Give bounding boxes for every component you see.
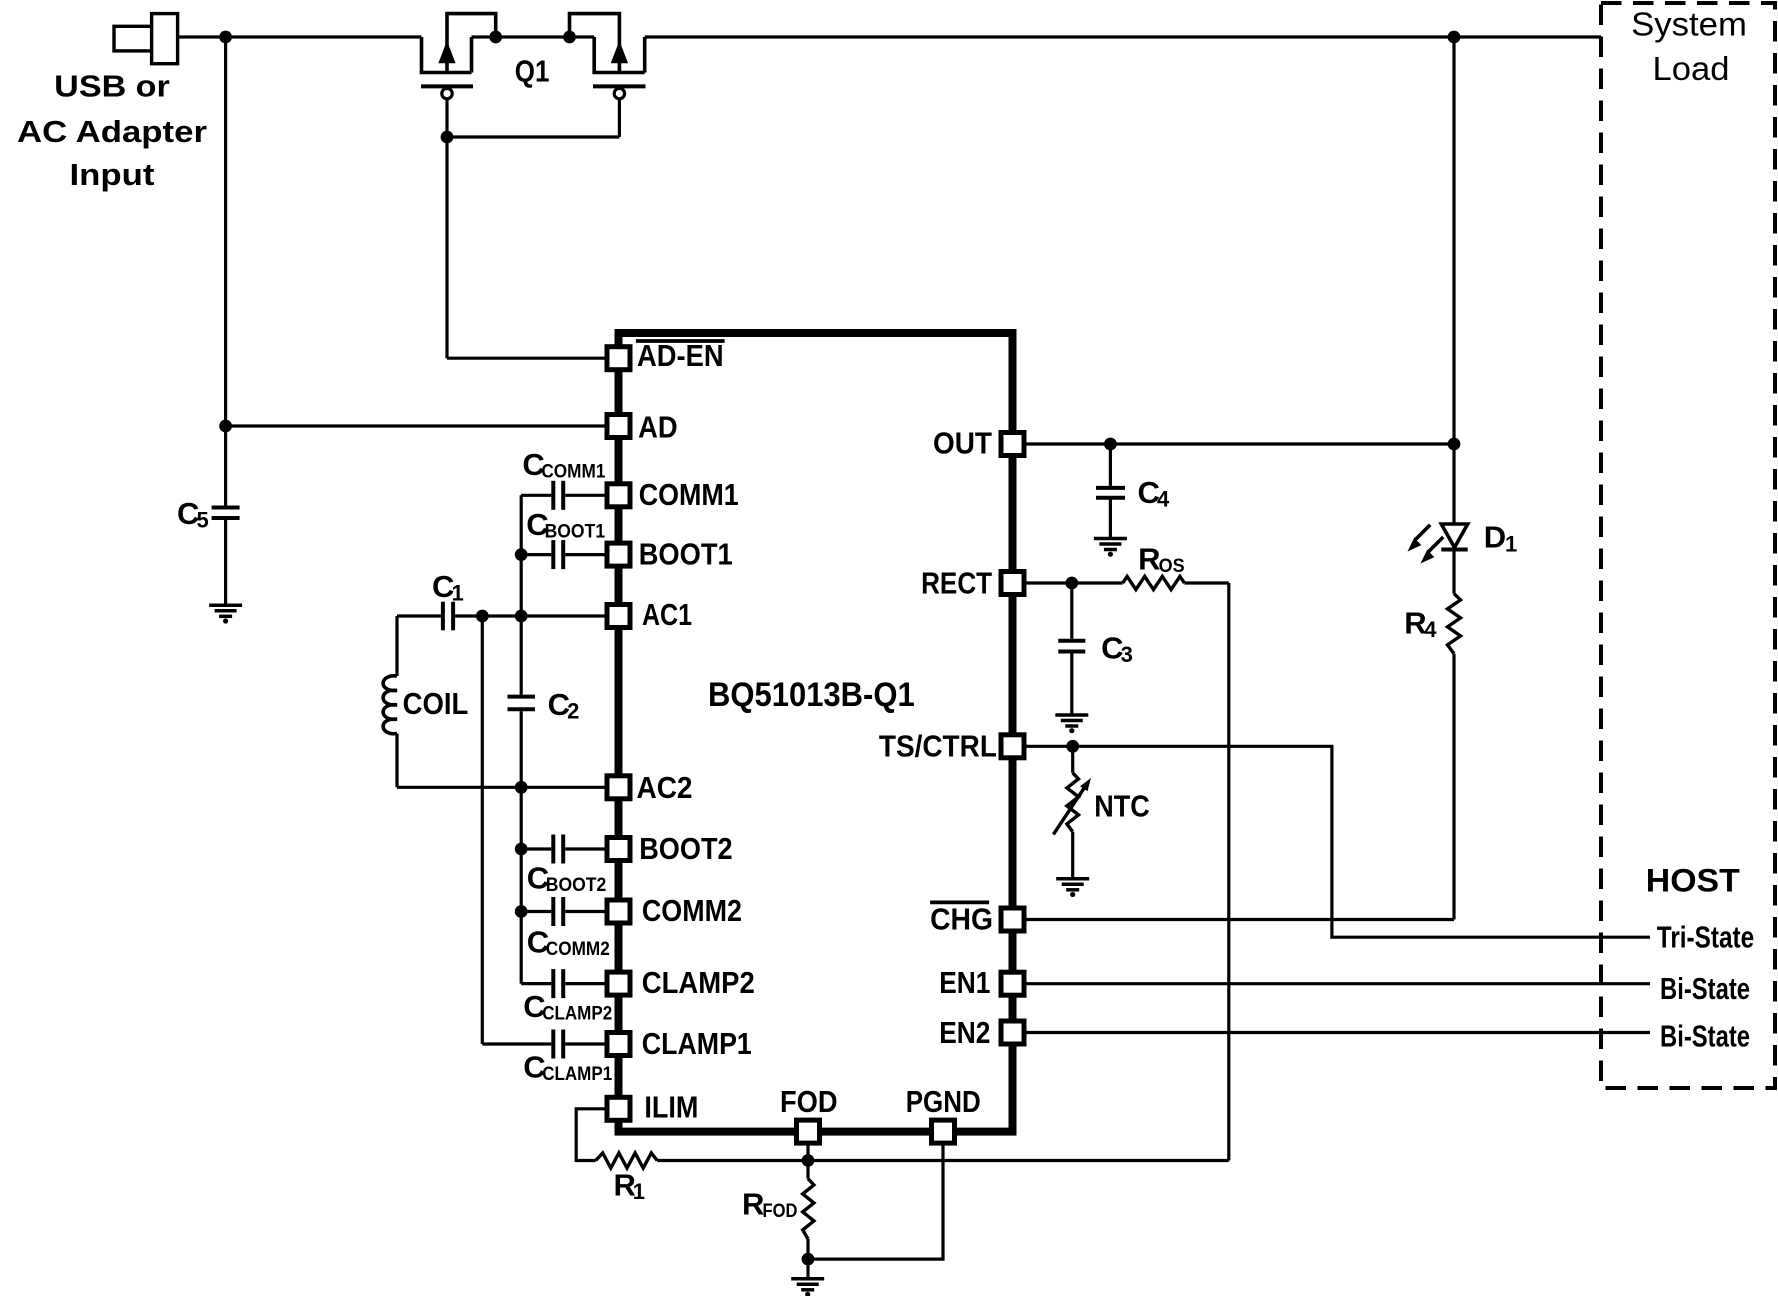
svg-text:FOD: FOD (780, 1085, 838, 1119)
resistor ROS (1123, 576, 1185, 589)
wire input drop to AD node (224, 37, 227, 506)
wire AC2 line (397, 786, 605, 789)
svg-text:AC Adapter: AC Adapter (17, 115, 207, 149)
wire R4 to CHG (1452, 654, 1455, 920)
svg-text:USB or: USB or (54, 70, 170, 104)
node RFOD-gnd (802, 1253, 815, 1266)
svg-text:AD: AD (638, 411, 678, 445)
wire FOD drop (806, 1145, 809, 1161)
node Q1 mid right (563, 31, 576, 44)
svg-text:COMM2: COMM2 (642, 894, 742, 928)
pin AD-EN (607, 347, 630, 370)
svg-text:Bi-State: Bi-State (1660, 1019, 1750, 1054)
svg-text:BOOT2: BOOT2 (639, 832, 732, 866)
svg-text:CHG: CHG (930, 903, 993, 937)
svg-text:PGND: PGND (906, 1085, 981, 1119)
wire top rail input segment (178, 35, 422, 38)
wire COMM1 cap line (521, 494, 551, 497)
wire BOOT2 cap line (521, 847, 551, 850)
label C3 (1101, 631, 1133, 668)
svg-text:System: System (1631, 6, 1747, 43)
svg-text:5: 5 (197, 508, 209, 533)
wire D1 to R4 (1452, 550, 1455, 594)
svg-text:1: 1 (1505, 532, 1517, 557)
svg-text:ILIM: ILIM (644, 1091, 698, 1125)
label USB or AC Adapter Input (17, 70, 207, 192)
wire R1 to FOD to ROS (657, 1159, 1229, 1162)
svg-text:R: R (742, 1187, 764, 1222)
ground under C3 (1055, 715, 1088, 733)
pin COMM2 (607, 900, 630, 923)
wire comm-clamp bus vertical (520, 495, 523, 694)
label CCLAMP1 (523, 1050, 612, 1086)
node C4 tap (1104, 438, 1117, 451)
svg-text:CLAMP2: CLAMP2 (642, 966, 755, 1000)
wire ILIM line (576, 1109, 604, 1161)
wire C3 drop (1070, 583, 1073, 639)
svg-text:COMM2: COMM2 (546, 939, 610, 960)
svg-text:NTC: NTC (1094, 789, 1150, 823)
pin BOOT1 (607, 543, 630, 566)
wire CLAMP1 cap line (482, 1042, 551, 1045)
capacitor C3 (1058, 641, 1085, 652)
box System Load / HOST dashed (1601, 3, 1775, 1088)
wire OUT to D1 vertical (1452, 37, 1455, 524)
svg-text:BOOT1: BOOT1 (639, 538, 733, 572)
capacitor CBOOT2 (553, 835, 563, 864)
capacitor CCLAMP2 (553, 969, 563, 998)
pin CLAMP1 (607, 1033, 630, 1056)
svg-text:BOOT2: BOOT2 (546, 875, 607, 896)
wire AC1 line (397, 614, 441, 617)
wire C4 to ground (1109, 498, 1112, 539)
label CBOOT2 (527, 861, 607, 897)
pin EN2 (1001, 1021, 1024, 1044)
svg-text:D: D (1484, 520, 1506, 555)
IC U1 BQ51013B-Q1 body (619, 333, 1013, 1132)
svg-text:AC2: AC2 (637, 771, 693, 805)
pin FOD (797, 1120, 820, 1143)
node AC1 left (476, 610, 489, 623)
wire AD line (226, 424, 605, 427)
pin CHG (1001, 908, 1024, 931)
label CBOOT1 (526, 507, 605, 543)
resistor R4 (1448, 594, 1461, 654)
wire EN1 line (1026, 982, 1650, 985)
capacitor CCOMM1 (553, 481, 563, 510)
ground under C4 (1094, 539, 1127, 557)
ground under NTC (1056, 879, 1089, 897)
svg-text:COMM1: COMM1 (541, 462, 605, 483)
node input (219, 31, 232, 44)
svg-text:Tri-State: Tri-State (1657, 920, 1754, 955)
node RECT-C3 (1065, 577, 1078, 590)
label D1 (1484, 520, 1518, 557)
capacitor C2 (508, 697, 536, 710)
label CCOMM2 (527, 925, 610, 961)
wire CLAMP2 cap line (521, 982, 551, 985)
wire EN2 line (1026, 1031, 1650, 1034)
overline AD-EN (636, 339, 725, 343)
label ROS (1138, 541, 1185, 577)
pin BOOT2 (607, 838, 630, 861)
node FOD-R1 (802, 1154, 815, 1167)
node AD (219, 420, 232, 433)
svg-text:Q1: Q1 (515, 55, 550, 89)
wire RECT line (1026, 581, 1123, 584)
resistor RFOD (803, 1161, 814, 1260)
label C1 (432, 569, 464, 606)
wire PGND return (808, 1145, 943, 1259)
wire BOOT1 cap line (521, 553, 551, 556)
LED D1 (1408, 524, 1468, 564)
pin EN1 (1001, 972, 1024, 995)
node Q1 mid left (489, 31, 502, 44)
svg-text:COIL: COIL (403, 687, 469, 721)
node BOOT1 bus (515, 548, 528, 561)
overline CHG (930, 901, 989, 905)
pin AC2 (607, 776, 630, 799)
node AC1 bus (515, 610, 528, 623)
label C2 (548, 687, 580, 724)
wire RFOD to ground (806, 1259, 809, 1279)
ground under RFOD (791, 1279, 824, 1296)
svg-text:BOOT1: BOOT1 (545, 522, 606, 543)
capacitor CCLAMP1 (553, 1030, 563, 1059)
node OUT-D1 (1448, 438, 1461, 451)
label CCOMM1 (522, 447, 605, 483)
svg-text:HOST: HOST (1646, 863, 1740, 899)
connector J1 USB/AC input (114, 14, 178, 64)
capacitor C4 (1096, 488, 1125, 498)
wire TS/CTRL line (1026, 746, 1650, 937)
pin RECT (1001, 572, 1024, 595)
svg-text:CLAMP2: CLAMP2 (542, 1004, 612, 1025)
pin AD (607, 415, 630, 438)
pin TS/CTRL (1001, 735, 1024, 758)
svg-text:4: 4 (1157, 486, 1170, 511)
wire COMM2 cap line (521, 910, 551, 913)
inductor COIL (383, 616, 397, 787)
capacitor C1 (443, 602, 453, 631)
node BOOT2 bus (515, 843, 528, 856)
svg-text:BQ51013B-Q1: BQ51013B-Q1 (708, 676, 915, 714)
label RFOD (742, 1187, 798, 1223)
pin OUT (1001, 433, 1024, 456)
svg-text:COMM1: COMM1 (639, 478, 739, 512)
ground under C5 (209, 605, 242, 623)
pin CLAMP2 (607, 972, 630, 995)
svg-text:Bi-State: Bi-State (1660, 971, 1750, 1006)
wire C3 to ground (1070, 652, 1073, 716)
svg-text:EN1: EN1 (939, 966, 990, 1000)
svg-text:Input: Input (70, 158, 155, 192)
pin ILIM (607, 1097, 630, 1120)
svg-text:EN2: EN2 (939, 1016, 990, 1050)
svg-text:2: 2 (567, 699, 579, 724)
capacitor CCOMM2 (553, 897, 563, 926)
node COMM2 bus (515, 905, 528, 918)
pin labels (637, 339, 997, 1125)
node system load tap (1448, 31, 1461, 44)
wire AD-EN line (447, 357, 605, 360)
node Q1 gate (441, 131, 454, 144)
wire C4 drop (1109, 444, 1112, 486)
wire OUT line (1026, 442, 1454, 445)
svg-text:R: R (1138, 541, 1160, 576)
svg-text:3: 3 (1121, 642, 1133, 667)
capacitor CBOOT1 (553, 540, 563, 569)
label System Load (1631, 6, 1747, 87)
svg-text:1: 1 (633, 1179, 645, 1204)
svg-text:4: 4 (1424, 617, 1437, 642)
svg-text:RECT: RECT (921, 566, 992, 600)
thermistor NTC (1053, 746, 1091, 879)
transistor Q1 right PMOS (570, 14, 646, 99)
wire CHG line (1026, 918, 1454, 921)
svg-text:AD-EN: AD-EN (637, 339, 724, 373)
wire AC1-CLAMP1 vertical (481, 616, 484, 1044)
transistor Q1 left PMOS (420, 14, 496, 99)
pin AC1 (607, 605, 630, 628)
svg-text:1: 1 (452, 581, 464, 606)
svg-text:AC1: AC1 (642, 598, 692, 632)
node TS-NTC (1066, 740, 1079, 753)
resistor R1 (596, 1153, 658, 1168)
wire Q1 gate link (445, 99, 448, 358)
capacitor C5 (212, 508, 240, 519)
wire C5 to ground (224, 518, 227, 605)
wire top rail middle node segment (472, 35, 595, 38)
label CCLAMP2 (523, 989, 612, 1025)
svg-text:OS: OS (1159, 556, 1185, 577)
node AC2 bus (515, 781, 528, 794)
svg-text:Load: Load (1653, 50, 1730, 87)
wire top rail to system load (645, 35, 1601, 38)
svg-text:OUT: OUT (933, 427, 992, 461)
label R4 (1404, 605, 1437, 642)
label C4 (1138, 475, 1171, 512)
label C5 (177, 496, 209, 533)
IC pins (607, 347, 1024, 1143)
svg-text:TS/CTRL: TS/CTRL (879, 730, 997, 764)
wire ROS to FOD net (1184, 581, 1228, 584)
svg-text:CLAMP1: CLAMP1 (542, 1064, 612, 1085)
pin PGND (932, 1120, 955, 1143)
pin COMM1 (607, 484, 630, 507)
label R1 (614, 1168, 646, 1205)
svg-text:FOD: FOD (763, 1201, 798, 1222)
svg-text:CLAMP1: CLAMP1 (642, 1027, 752, 1061)
